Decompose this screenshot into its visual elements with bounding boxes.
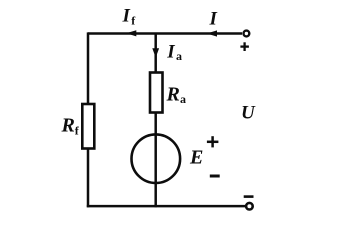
- wire left vertical upper: [87, 32, 90, 104]
- svg-text:a: a: [180, 92, 186, 106]
- plus sign of source E: [207, 136, 219, 147]
- label R of Ra: [166, 83, 180, 105]
- wire middle vertical upper: [154, 34, 157, 73]
- svg-text:I: I: [122, 6, 131, 27]
- current arrow I (pointing left on top wire near terminal): [207, 30, 217, 36]
- terminal top-right (+): [244, 31, 250, 37]
- label R of Rf: [61, 115, 75, 137]
- label I: [209, 9, 218, 30]
- resistor Ra: [150, 73, 163, 113]
- current arrow If (pointing left on top wire): [126, 30, 136, 36]
- wire top horizontal: [88, 32, 242, 35]
- resistor Rf: [82, 104, 94, 149]
- svg-text:I: I: [166, 42, 175, 63]
- label I of If: [122, 6, 131, 27]
- svg-text:R: R: [61, 115, 75, 137]
- svg-text:U: U: [241, 102, 256, 123]
- subscript a of Ia: [176, 49, 182, 63]
- subscript f of If: [131, 13, 136, 27]
- svg-text:a: a: [176, 49, 182, 63]
- label I of Ia: [166, 42, 175, 63]
- subscript f of Rf: [75, 124, 80, 138]
- voltage source E (circle): [132, 134, 181, 183]
- wire left vertical lower: [87, 149, 90, 208]
- plus sign at top-right terminal: [240, 42, 249, 51]
- current arrow Ia (pointing down on middle branch): [152, 48, 159, 57]
- svg-text:R: R: [166, 83, 180, 105]
- minus sign at bottom-right terminal: [244, 195, 254, 198]
- minus sign of source E: [210, 175, 220, 178]
- svg-text:E: E: [189, 146, 203, 168]
- svg-text:f: f: [75, 124, 80, 138]
- label E: [189, 146, 203, 168]
- label U: [241, 102, 256, 123]
- wire bottom horizontal: [87, 205, 246, 208]
- terminal bottom-right (−): [246, 203, 253, 210]
- wire middle vertical lower (passes through source E): [154, 113, 157, 207]
- subscript a of Ra: [180, 92, 186, 106]
- svg-text:f: f: [131, 13, 136, 27]
- svg-text:I: I: [209, 9, 218, 30]
